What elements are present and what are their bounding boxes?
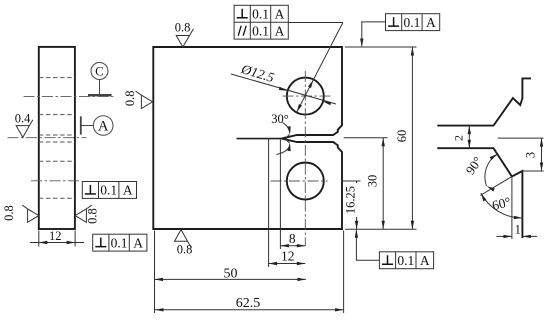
svg-text:2: 2 — [452, 135, 466, 141]
svg-text:A: A — [275, 23, 285, 38]
svg-text:A: A — [420, 253, 430, 268]
svg-text:A: A — [123, 183, 133, 198]
svg-text:60: 60 — [395, 130, 409, 143]
svg-text:0.8: 0.8 — [177, 243, 193, 257]
svg-text:A: A — [133, 235, 143, 250]
svg-text:C: C — [95, 64, 104, 79]
svg-text:50: 50 — [224, 267, 238, 282]
svg-text:8: 8 — [289, 231, 296, 246]
svg-text:0.1: 0.1 — [252, 6, 269, 21]
svg-text:A: A — [275, 6, 285, 21]
svg-text:0.1: 0.1 — [111, 235, 128, 250]
svg-text:3: 3 — [524, 152, 538, 158]
svg-text:0.8: 0.8 — [86, 208, 100, 224]
svg-text:1: 1 — [515, 222, 521, 236]
svg-text:0.1: 0.1 — [403, 15, 420, 30]
svg-text:30°: 30° — [271, 112, 289, 126]
svg-text:62.5: 62.5 — [236, 296, 261, 311]
svg-text:0.1: 0.1 — [252, 23, 269, 38]
svg-text:A: A — [98, 119, 109, 135]
svg-text:16.25: 16.25 — [344, 186, 358, 214]
svg-text:0.1: 0.1 — [100, 183, 117, 198]
svg-text:0.8: 0.8 — [175, 21, 191, 35]
svg-text:A: A — [426, 15, 436, 30]
svg-text:0.8: 0.8 — [2, 205, 16, 221]
svg-text:0.1: 0.1 — [397, 253, 414, 268]
svg-text:12: 12 — [49, 229, 62, 243]
svg-text:30: 30 — [366, 175, 380, 188]
svg-text:0.8: 0.8 — [123, 90, 137, 106]
svg-text:12: 12 — [281, 248, 295, 263]
svg-text:0.4: 0.4 — [15, 111, 31, 125]
